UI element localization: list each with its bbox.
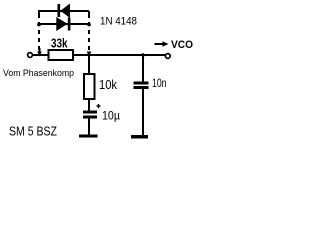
wire main (resistor to output) <box>73 54 165 56</box>
svg-text:33k: 33k <box>51 36 68 51</box>
svg-text:1N 4148: 1N 4148 <box>100 16 137 28</box>
diode D2 1N4148 (pointing right, bottom) <box>56 17 70 31</box>
wire dashed rail right <box>88 11 90 50</box>
wire bottom diode rail <box>38 23 89 25</box>
label SM 5 BSZ <box>9 124 57 139</box>
wire 10u to ground <box>88 119 90 135</box>
plus mark of electrolytic <box>97 104 101 108</box>
junction dot left rail / bottom rail <box>37 23 41 27</box>
junction dot right rail / bottom rail <box>87 23 91 27</box>
wire branch down to 10n <box>142 55 144 82</box>
svg-text:Vom Phasenkomp: Vom Phasenkomp <box>3 68 74 79</box>
label 1N 4148 <box>100 16 137 28</box>
resistor R2 10k <box>84 74 95 99</box>
label VCO <box>171 39 193 51</box>
junction arrowhead left rail onto main wire <box>37 52 42 57</box>
svg-text:10µ: 10µ <box>102 109 120 123</box>
input terminal (open circle) <box>28 53 33 58</box>
label vom Phasenkomp <box>3 68 74 79</box>
ground (right) <box>131 135 148 139</box>
diode D1 1N4148 (pointing left, top) <box>58 4 71 19</box>
arrow VCO <box>155 41 169 47</box>
junction dot main wire / 10n branch <box>141 53 145 57</box>
capacitor C2 10n <box>134 82 149 90</box>
ground (left) <box>79 135 98 138</box>
svg-text:10k: 10k <box>99 77 117 92</box>
svg-text:10n: 10n <box>152 76 167 90</box>
wire top diode rail <box>38 10 89 12</box>
svg-text:SM 5 BSZ: SM 5 BSZ <box>9 124 57 139</box>
wire 10n to ground <box>142 89 144 135</box>
label 10k <box>99 77 117 92</box>
wire dashed rail left <box>38 11 41 53</box>
wire input to resistor <box>32 54 49 56</box>
wire branch down to 10k <box>88 55 90 74</box>
junction arrowhead right rail onto main wire <box>87 52 92 57</box>
label 10µ <box>102 109 120 123</box>
output terminal VCO (open circle) <box>165 54 170 59</box>
capacitor C1 10µ (electrolytic) <box>83 111 97 119</box>
wire 10k to 10u <box>88 99 90 111</box>
label 10n <box>152 76 167 90</box>
label 33k <box>51 36 68 51</box>
svg-text:VCO: VCO <box>171 39 193 51</box>
resistor R1 33k <box>49 50 74 60</box>
